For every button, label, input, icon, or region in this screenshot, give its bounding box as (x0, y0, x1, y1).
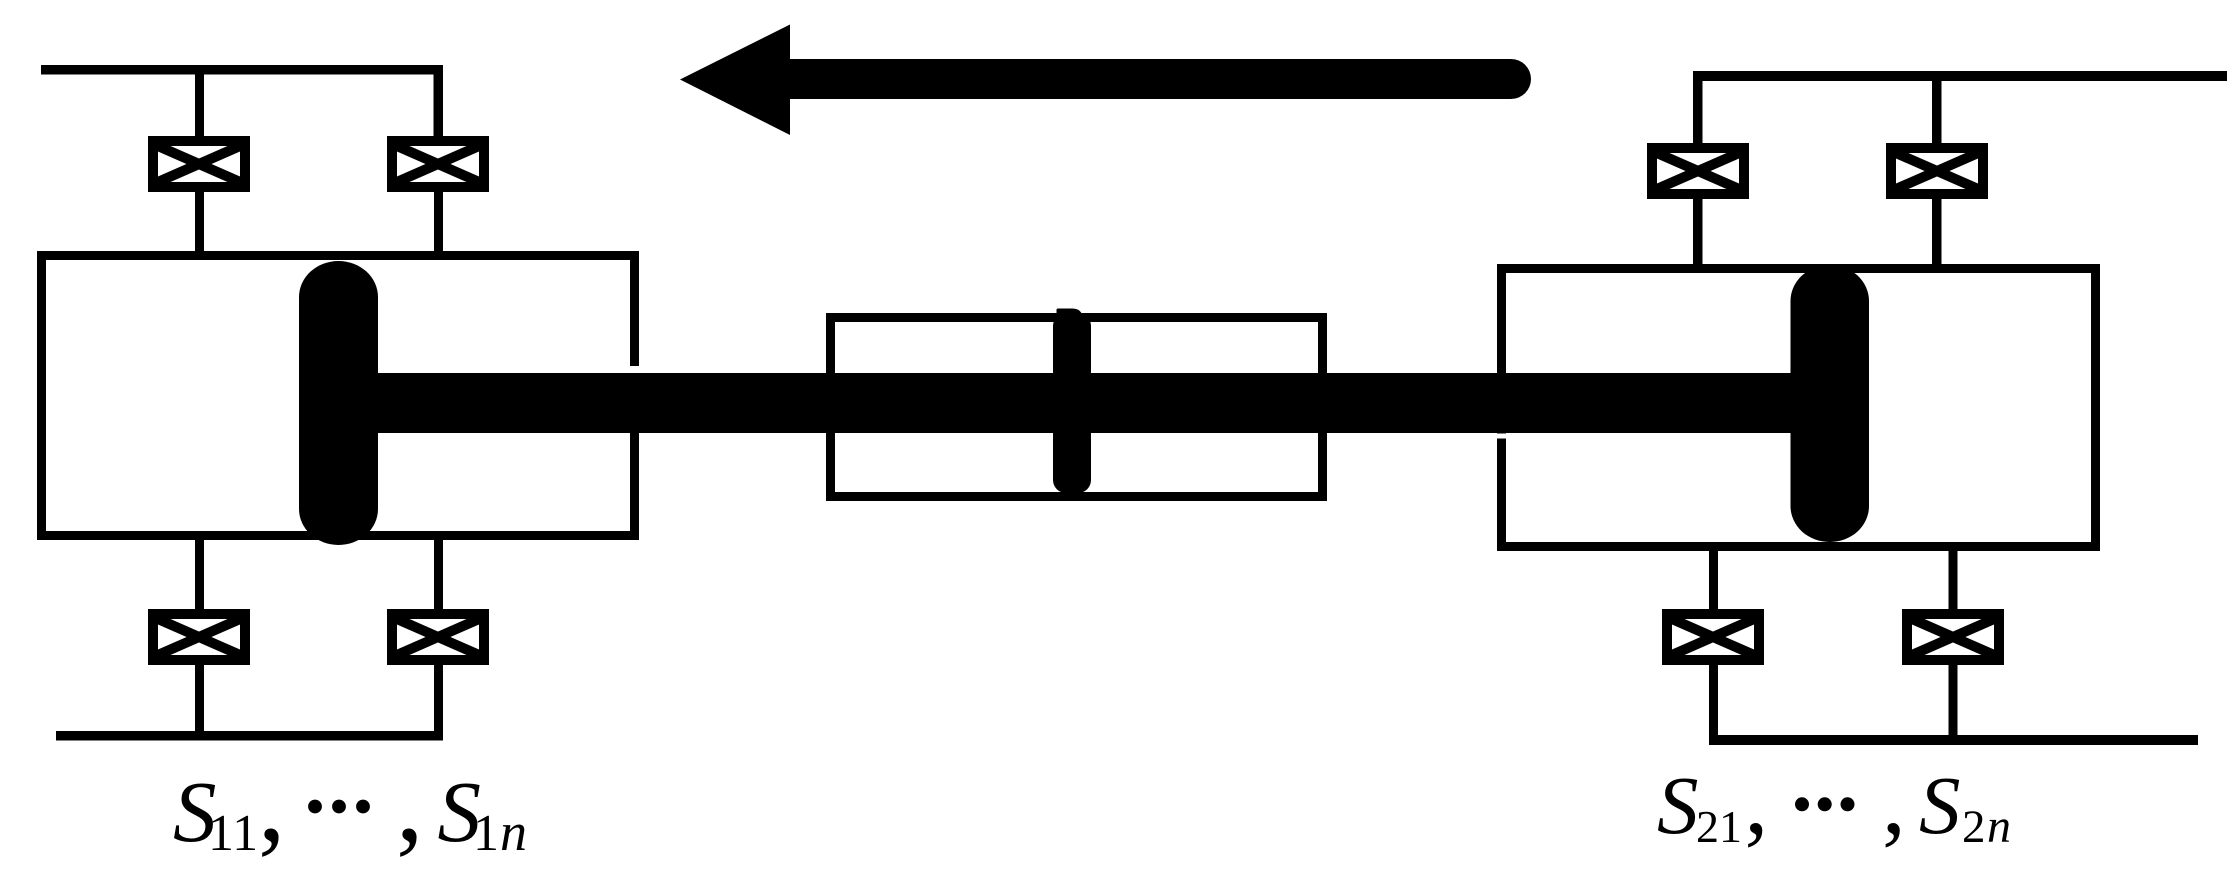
ellipsis dot 3 left (356, 800, 370, 814)
wire column B tail (434, 665, 443, 735)
wire column D upper (1932, 76, 1942, 143)
wire column B to left loop (434, 192, 443, 255)
shaft (mechanical beam) (340, 373, 1810, 433)
arrow (direction of signal, pointing left) (680, 25, 1531, 136)
Josephson junction S2n bottom-right (1907, 614, 1999, 660)
right paddle (1791, 265, 1870, 542)
left SQUID loop (42, 256, 635, 536)
wire column A upper (195, 72, 204, 136)
Josephson junction S21 bottom-right (1667, 614, 1759, 660)
svg-text:,: , (1882, 748, 1906, 854)
wire column C to right loop (1693, 198, 1703, 268)
svg-text:2: 2 (1962, 801, 1986, 853)
ellipsis dot 1 right (1795, 797, 1809, 811)
wire column E stub (1709, 547, 1718, 610)
middle loop (coupler) (831, 318, 1323, 497)
svg-text:,: , (258, 742, 286, 864)
wire column B upper (434, 65, 444, 136)
Josephson junction S11 top-left (153, 141, 245, 187)
Josephson junction S11 bottom-left (153, 614, 245, 660)
wire column F tail (1949, 665, 1958, 737)
Josephson junction S1n top-left (392, 141, 484, 187)
wire top-right bus (1694, 71, 2227, 81)
Josephson junction S2n top-right (1891, 148, 1983, 194)
Josephson junction S21 top-right (1652, 148, 1744, 194)
svg-text:,: , (396, 742, 424, 864)
svg-text:1: 1 (473, 805, 499, 862)
wire column F stub (1949, 547, 1958, 610)
svg-text:21: 21 (1696, 801, 1742, 852)
ellipsis dot 2 left (332, 800, 346, 814)
wire bottom-right bus (1709, 735, 2198, 745)
ellipsis dot 1 left (308, 800, 322, 814)
gap in left loop right edge (629, 366, 640, 374)
right SQUID loop (1502, 269, 2096, 547)
svg-text:S: S (1919, 759, 1961, 851)
svg-text:,: , (1745, 748, 1769, 854)
ellipsis dot 2 right (1818, 797, 1832, 811)
wire column C upper (1693, 71, 1703, 143)
wire column D to right loop (1932, 198, 1942, 268)
wire column B bottom stub (434, 536, 443, 609)
wire column A to left loop (195, 192, 204, 255)
middle paddle (1057, 309, 1082, 322)
svg-text:S: S (1657, 759, 1699, 851)
wire column A tail (195, 665, 204, 735)
wire column A bottom stub (195, 536, 204, 609)
svg-text:11: 11 (208, 805, 258, 862)
wire bottom-left bus (56, 731, 443, 741)
gap in right loop left edge (1496, 434, 1507, 439)
svg-text:n: n (500, 802, 527, 862)
ellipsis dot 3 right (1841, 797, 1855, 811)
wire top-left bus (41, 65, 443, 75)
left paddle (299, 261, 378, 545)
svg-text:n: n (1987, 800, 2011, 853)
Josephson junction S1n bottom-left (392, 614, 484, 660)
wire column E tail (1709, 665, 1718, 737)
